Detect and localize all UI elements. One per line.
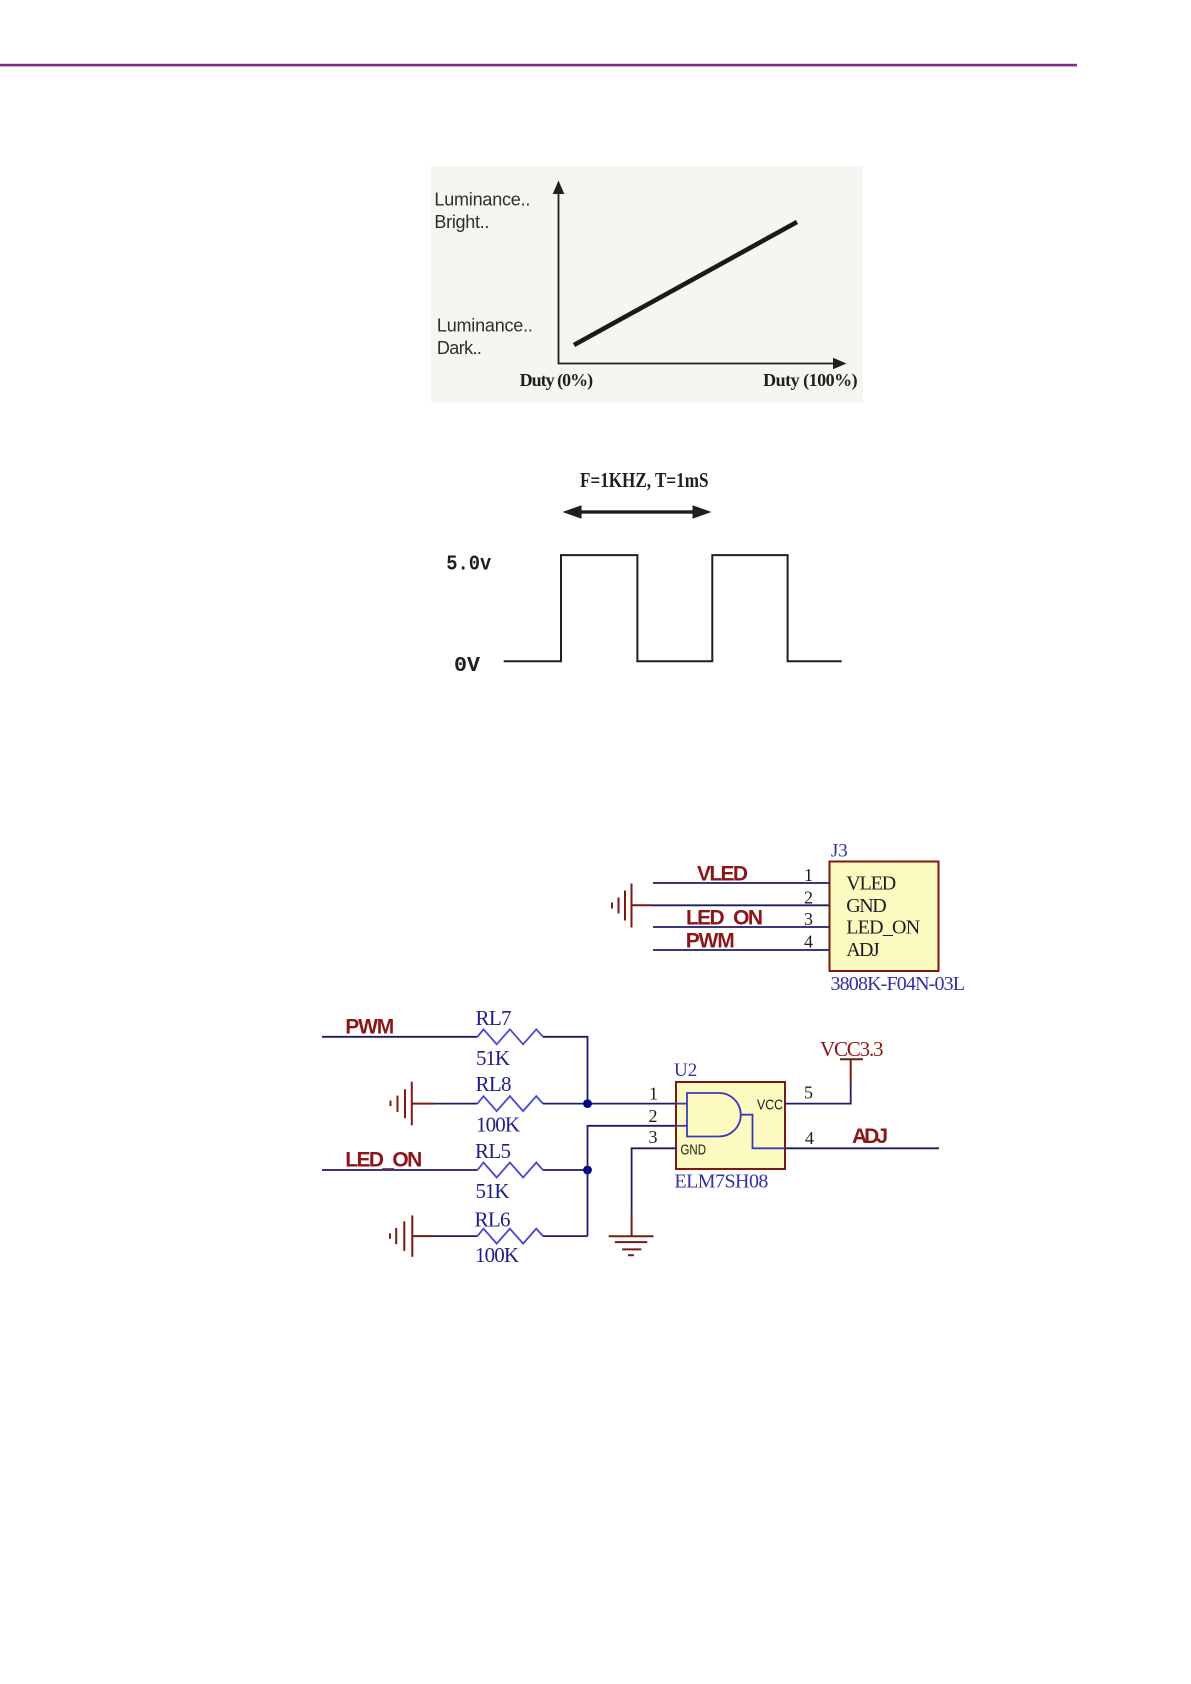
resistor RL6 [478, 1229, 544, 1244]
svg-text:4: 4 [805, 1128, 814, 1148]
wire gnd to RL6 [433, 1235, 478, 1237]
AND gate U2 body [676, 1082, 785, 1169]
wire PWM row [322, 1036, 478, 1038]
svg-text:1: 1 [804, 865, 813, 885]
y axis [558, 192, 560, 364]
svg-text:ADJ: ADJ [852, 1125, 888, 1148]
svg-text:PWM: PWM [345, 1015, 394, 1038]
svg-text:4: 4 [804, 932, 813, 952]
pwm square wave [504, 555, 842, 661]
wire RL5 to node [543, 1169, 588, 1171]
svg-text:Bright..: Bright.. [434, 212, 489, 232]
svg-text:VLED: VLED [846, 873, 896, 895]
svg-text:U2: U2 [674, 1060, 697, 1081]
svg-text:VCC: VCC [757, 1097, 783, 1114]
AND gate symbol [676, 1093, 785, 1148]
header rule [0, 64, 1077, 67]
wire U2 pin3 to ground [632, 1148, 676, 1214]
svg-text:GND: GND [681, 1142, 707, 1159]
x axis [559, 363, 839, 365]
svg-text:Luminance..: Luminance.. [434, 190, 530, 210]
junction node LED_ON [583, 1166, 592, 1175]
ground (RL6) [390, 1215, 433, 1256]
svg-text:RL5: RL5 [475, 1139, 511, 1163]
svg-text:0V: 0V [454, 655, 480, 678]
resistor RL7 [478, 1029, 544, 1044]
wire VLED to J3 pin1 [653, 882, 830, 884]
svg-text:RL6: RL6 [475, 1208, 511, 1232]
wire gnd to RL8 [435, 1103, 478, 1105]
svg-text:J3: J3 [831, 841, 848, 862]
svg-text:ADJ: ADJ [846, 939, 880, 961]
svg-text:ELM7SH08: ELM7SH08 [674, 1171, 768, 1193]
wire U2 pin4 ADJ [785, 1147, 939, 1149]
figure 1: luminance vs duty graph [559, 192, 839, 364]
earth ground [609, 1236, 654, 1255]
svg-text:PWM: PWM [686, 930, 735, 953]
ground (RL8) [391, 1082, 435, 1126]
resistor RL8 [478, 1096, 544, 1111]
svg-text:5.0v: 5.0v [446, 554, 491, 577]
svg-text:2: 2 [804, 888, 813, 908]
wire RL8 to U2 pin1 [543, 1103, 676, 1105]
svg-text:LED_ON: LED_ON [345, 1149, 422, 1172]
svg-text:3: 3 [649, 1127, 658, 1147]
figure 1 background [431, 166, 863, 403]
period arrow [563, 505, 712, 519]
svg-text:Duty (0%): Duty (0%) [520, 370, 594, 391]
svg-text:51K: 51K [476, 1179, 510, 1203]
connector J3 body [830, 862, 939, 972]
svg-text:51K: 51K [476, 1046, 510, 1070]
y axis arrowhead [553, 181, 565, 195]
svg-text:3808K-F04N-03L: 3808K-F04N-03L [831, 973, 966, 995]
wire LED_ON to J3 pin3 [653, 926, 830, 928]
wire RL6 to branch [543, 1235, 588, 1237]
wire PWM to J3 pin4 [653, 949, 830, 951]
junction node pin1 [583, 1099, 592, 1108]
svg-text:F=1KHZ, T=1mS: F=1KHZ, T=1mS [580, 468, 709, 492]
luminance curve [574, 222, 797, 345]
svg-text:1: 1 [649, 1084, 658, 1104]
svg-text:VLED: VLED [697, 863, 748, 886]
svg-text:LED_ON: LED_ON [686, 907, 763, 930]
svg-text:100K: 100K [476, 1113, 520, 1137]
svg-text:LED_ON: LED_ON [846, 917, 920, 939]
svg-text:100K: 100K [475, 1243, 519, 1267]
wire node branch vertical [588, 1126, 677, 1236]
svg-text:VCC3.3: VCC3.3 [820, 1037, 884, 1061]
x axis arrowhead [833, 358, 847, 370]
wire gnd to J3 pin2 [652, 904, 830, 906]
wire LED_ON row [322, 1169, 478, 1171]
svg-text:Duty (100%): Duty (100%) [763, 370, 858, 391]
wire U2 pin5 to VCC [785, 1085, 851, 1104]
ground (pin2 net) [612, 884, 652, 928]
svg-text:Luminance..: Luminance.. [437, 316, 533, 336]
svg-text:GND: GND [846, 895, 887, 917]
ground stem (earth) [631, 1215, 633, 1237]
svg-text:Dark..: Dark.. [437, 338, 482, 358]
wire RL7 to node [543, 1037, 588, 1104]
power VCC3.3 [840, 1059, 863, 1085]
svg-text:3: 3 [804, 909, 813, 929]
svg-text:2: 2 [649, 1106, 658, 1126]
svg-text:RL7: RL7 [476, 1006, 512, 1030]
svg-text:RL8: RL8 [476, 1072, 512, 1096]
resistor RL5 [478, 1163, 544, 1178]
svg-text:5: 5 [804, 1083, 813, 1103]
